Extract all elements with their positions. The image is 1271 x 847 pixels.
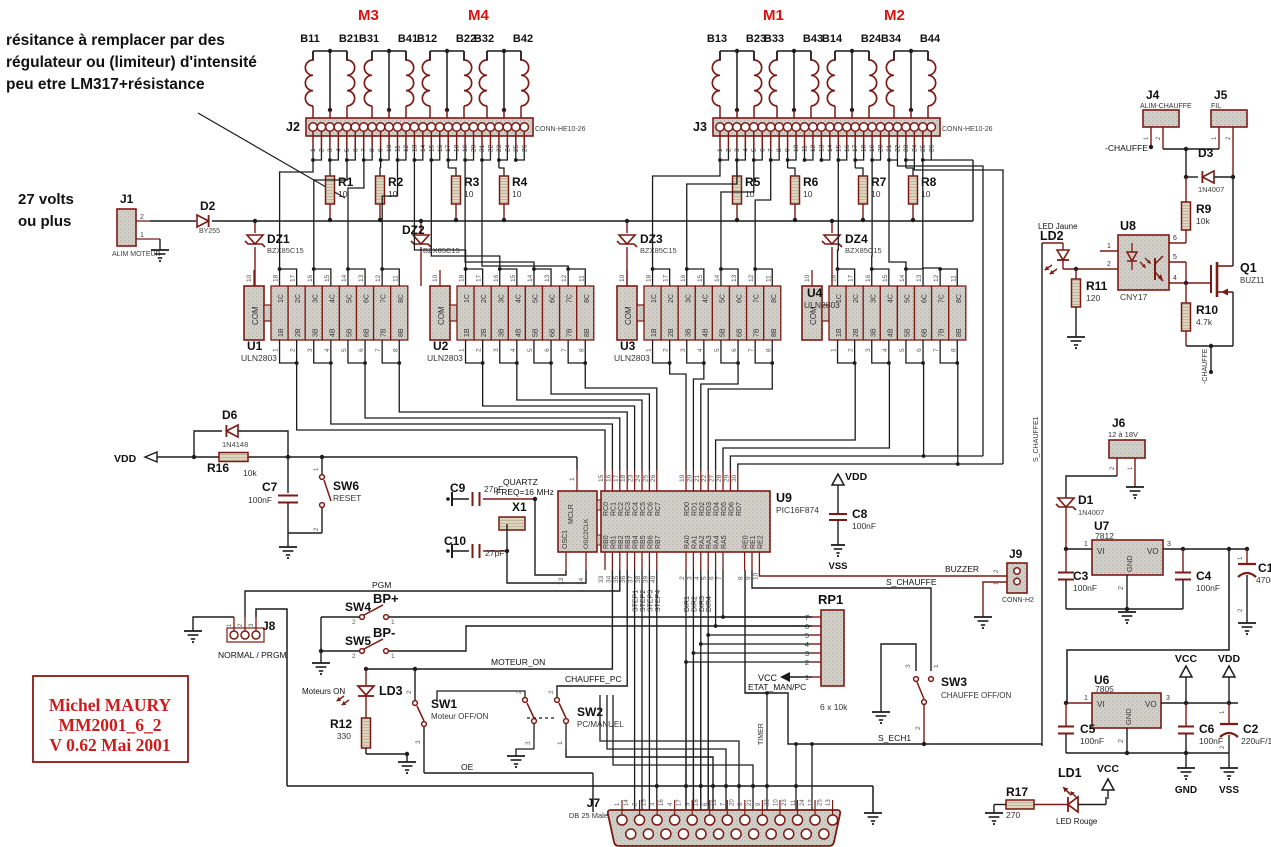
- svg-text:100nF: 100nF: [1199, 736, 1223, 746]
- svg-text:2: 2: [516, 690, 523, 694]
- svg-text:6C: 6C: [364, 294, 371, 303]
- capacitor C3 100nF: [1065, 549, 1067, 572]
- svg-text:GND: GND: [1124, 708, 1133, 725]
- svg-text:PIC16F874: PIC16F874: [776, 505, 819, 515]
- svg-text:D6: D6: [222, 408, 238, 422]
- svg-text:J3: J3: [693, 120, 707, 134]
- svg-text:3: 3: [493, 348, 500, 352]
- svg-text:4C: 4C: [702, 294, 709, 303]
- svg-text:19: 19: [712, 799, 718, 806]
- svg-text:7: 7: [561, 348, 568, 352]
- svg-text:DZ3: DZ3: [640, 232, 663, 246]
- svg-text:27 volts: 27 volts: [18, 191, 74, 208]
- wire MOTEUR_ON net: [366, 570, 612, 669]
- svg-text:2C: 2C: [295, 294, 302, 303]
- svg-text:1: 1: [557, 741, 564, 745]
- svg-text:RD6: RD6: [728, 502, 735, 516]
- svg-text:5C: 5C: [347, 294, 354, 303]
- svg-text:7C: 7C: [567, 294, 574, 303]
- svg-text:U1: U1: [247, 339, 263, 353]
- wire centre tap B12/B22: [446, 51, 448, 110]
- svg-text:C6: C6: [1199, 722, 1215, 736]
- svg-text:28: 28: [716, 474, 723, 482]
- svg-text:3B: 3B: [685, 328, 692, 337]
- svg-text:10: 10: [803, 189, 813, 199]
- svg-text:4: 4: [510, 348, 517, 352]
- wire top of windings B12/B22: [430, 50, 464, 52]
- pin 1 MCLR of U9: [576, 470, 578, 491]
- svg-text:B32: B32: [474, 33, 494, 45]
- svg-text:VO: VO: [1145, 700, 1157, 709]
- svg-text:B14: B14: [822, 33, 843, 45]
- svg-text:B21: B21: [339, 33, 359, 45]
- ground near SW3: [872, 711, 890, 713]
- svg-text:3C: 3C: [312, 294, 319, 303]
- wire centre tap B31/B41: [388, 51, 390, 110]
- svg-text:R10: R10: [1196, 303, 1218, 317]
- svg-text:U2: U2: [433, 339, 449, 353]
- svg-text:3: 3: [415, 740, 422, 744]
- svg-text:Q1: Q1: [1240, 261, 1257, 275]
- svg-text:10k: 10k: [243, 468, 257, 478]
- svg-text:FREQ=16 MHz: FREQ=16 MHz: [496, 487, 554, 497]
- svg-text:5: 5: [1173, 254, 1177, 261]
- svg-text:8B: 8B: [398, 328, 405, 337]
- svg-text:2B: 2B: [668, 328, 675, 337]
- svg-text:11: 11: [578, 275, 585, 282]
- svg-text:RE1: RE1: [750, 535, 757, 549]
- wire DIR nets to J7: [685, 662, 687, 806]
- svg-text:2: 2: [548, 690, 555, 694]
- pins RB0-RB7 of U9: [604, 552, 606, 570]
- svg-text:17: 17: [677, 799, 683, 806]
- svg-text:15: 15: [697, 274, 704, 282]
- svg-text:STEP1: STEP1: [633, 590, 640, 612]
- ground under U7: [1118, 611, 1136, 613]
- ground under J9: [974, 616, 992, 618]
- svg-text:7: 7: [748, 348, 755, 352]
- svg-text:RB1: RB1: [610, 535, 617, 549]
- pins OSC1 OSC2 of U9: [565, 552, 567, 570]
- svg-text:STEP2: STEP2: [640, 590, 647, 612]
- svg-text:9: 9: [745, 576, 752, 580]
- svg-text:16: 16: [307, 274, 314, 282]
- svg-text:R12: R12: [330, 717, 352, 731]
- wire LD2 to S_CHAUFFE1 column: [1041, 243, 1043, 746]
- svg-text:36: 36: [620, 575, 627, 583]
- svg-text:S_CHAUFFE1: S_CHAUFFE1: [1033, 416, 1040, 462]
- svg-text:Moteur OFF/ON: Moteur OFF/ON: [431, 712, 489, 721]
- svg-text:330: 330: [337, 731, 351, 741]
- svg-text:S_CHAUFFE: S_CHAUFFE: [886, 577, 937, 587]
- svg-text:6: 6: [1173, 235, 1177, 242]
- svg-text:7C: 7C: [754, 294, 761, 303]
- svg-text:18: 18: [694, 799, 700, 806]
- wire SW2 pole to J7: [566, 749, 713, 812]
- svg-text:15: 15: [882, 274, 889, 282]
- power arrow VDD at C8: [832, 474, 844, 485]
- svg-text:11: 11: [791, 799, 797, 806]
- svg-text:R5: R5: [745, 175, 761, 189]
- svg-text:27pF: 27pF: [485, 548, 504, 558]
- ground under C6 GND: [1185, 753, 1187, 768]
- svg-text:20: 20: [729, 799, 735, 806]
- svg-text:16: 16: [605, 474, 612, 482]
- svg-text:LD3: LD3: [379, 684, 403, 698]
- svg-text:13: 13: [826, 799, 832, 806]
- svg-text:B44: B44: [920, 33, 941, 45]
- ic U2 ULN2803: [430, 286, 450, 340]
- svg-text:BUZZER: BUZZER: [945, 564, 979, 574]
- svg-text:13: 13: [358, 274, 365, 282]
- svg-text:35: 35: [613, 575, 620, 583]
- svg-text:4: 4: [1173, 275, 1177, 282]
- svg-text:RC6: RC6: [647, 502, 654, 516]
- svg-text:6C: 6C: [922, 294, 929, 303]
- wire J3 to rail riser: [931, 159, 973, 161]
- wire BUZZER net: [759, 570, 1007, 576]
- svg-text:25: 25: [642, 474, 649, 482]
- resistor R16: [219, 453, 248, 462]
- svg-text:VSS: VSS: [828, 561, 847, 572]
- svg-text:U9: U9: [776, 491, 792, 505]
- svg-text:33: 33: [598, 575, 605, 583]
- svg-text:R7: R7: [871, 175, 887, 189]
- svg-text:M1: M1: [763, 7, 784, 24]
- net -CHAUFFE stub: [1210, 346, 1212, 372]
- svg-text:OE: OE: [461, 762, 474, 772]
- wire RA nets to RP1 and J7: [685, 570, 687, 662]
- pins RD0-RD7 of U9: [685, 470, 687, 491]
- svg-text:CHAUFFE OFF/ON: CHAUFFE OFF/ON: [941, 691, 1011, 700]
- svg-text:DZ2: DZ2: [402, 223, 425, 237]
- svg-text:8: 8: [392, 348, 399, 352]
- svg-text:10: 10: [388, 189, 398, 199]
- power arrow VDD: [1223, 666, 1235, 677]
- svg-text:C2: C2: [1243, 722, 1259, 736]
- resistor R8: [905, 160, 907, 168]
- wire PGM net: [245, 570, 620, 617]
- svg-text:CNY17: CNY17: [1120, 292, 1148, 302]
- svg-text:4C: 4C: [515, 294, 522, 303]
- svg-text:B11: B11: [300, 33, 320, 45]
- svg-text:15: 15: [510, 274, 517, 282]
- wire gang link SW2: [527, 717, 555, 719]
- ic U9 PIC16F874: [558, 491, 597, 552]
- ground under C7: [279, 546, 297, 548]
- resistor R3: [447, 160, 449, 168]
- svg-text:BZX85C15: BZX85C15: [845, 246, 882, 255]
- svg-text:21: 21: [747, 799, 753, 806]
- svg-text:2: 2: [1118, 586, 1125, 590]
- capacitor C2 220uF: [1228, 703, 1230, 725]
- svg-text:2: 2: [663, 348, 670, 352]
- svg-text:470uF: 470uF: [1256, 575, 1271, 585]
- switch SW6 RESET: [321, 457, 323, 474]
- svg-text:S_ECH1: S_ECH1: [878, 733, 911, 743]
- svg-text:100nF: 100nF: [1196, 583, 1220, 593]
- svg-text:B34: B34: [881, 33, 902, 45]
- svg-text:6C: 6C: [550, 294, 557, 303]
- svg-text:5: 5: [714, 348, 721, 352]
- resistor R7: [854, 160, 856, 168]
- svg-text:270: 270: [1006, 810, 1020, 820]
- ground for J1: [159, 239, 161, 250]
- svg-text:B31: B31: [359, 33, 379, 45]
- svg-text:5B: 5B: [720, 328, 727, 337]
- svg-text:13: 13: [916, 274, 923, 282]
- pin wires of U7: [1066, 548, 1092, 550]
- svg-text:16: 16: [865, 274, 872, 282]
- svg-text:B42: B42: [513, 33, 533, 45]
- svg-text:BZX85C15: BZX85C15: [267, 246, 304, 255]
- svg-text:4B: 4B: [329, 328, 336, 337]
- svg-text:J1: J1: [120, 192, 134, 206]
- svg-text:R3: R3: [464, 175, 480, 189]
- svg-text:ULN2803: ULN2803: [804, 300, 840, 310]
- svg-text:17: 17: [848, 274, 855, 282]
- svg-text:16: 16: [493, 274, 500, 282]
- svg-text:10: 10: [512, 189, 522, 199]
- zener DZ4: [831, 221, 833, 233]
- svg-text:SW3: SW3: [941, 675, 967, 689]
- svg-text:D3: D3: [1198, 146, 1214, 160]
- svg-text:2C: 2C: [668, 294, 675, 303]
- svg-text:7B: 7B: [381, 328, 388, 337]
- wire top of windings B31/B41: [372, 50, 406, 52]
- svg-text:2B: 2B: [853, 328, 860, 337]
- svg-text:10: 10: [752, 572, 759, 580]
- svg-text:15: 15: [641, 799, 647, 806]
- svg-text:B41: B41: [398, 33, 418, 45]
- svg-text:U4: U4: [807, 286, 823, 300]
- svg-text:3C: 3C: [685, 294, 692, 303]
- svg-text:4: 4: [882, 348, 889, 352]
- svg-text:U8: U8: [1120, 219, 1136, 233]
- svg-text:FIL: FIL: [1211, 103, 1221, 110]
- svg-text:RA2: RA2: [699, 535, 706, 549]
- wire OE net: [424, 772, 593, 774]
- svg-text:10: 10: [619, 274, 626, 282]
- svg-text:1: 1: [459, 348, 466, 352]
- svg-text:12: 12: [561, 274, 568, 282]
- svg-text:3: 3: [1166, 695, 1170, 702]
- wire U6 ground rail: [1066, 752, 1229, 754]
- svg-text:10: 10: [432, 274, 439, 282]
- svg-text:6B: 6B: [364, 328, 371, 337]
- diode D2 BY255: [150, 220, 196, 222]
- svg-text:5B: 5B: [905, 328, 912, 337]
- wire bus U2 outputs to U9 RC4-RC7: [483, 363, 635, 470]
- svg-text:17: 17: [613, 474, 620, 482]
- svg-text:U3: U3: [620, 339, 636, 353]
- svg-text:DIR2: DIR2: [691, 596, 698, 612]
- svg-text:4B: 4B: [515, 328, 522, 337]
- svg-text:R9: R9: [1196, 202, 1212, 216]
- svg-text:14: 14: [714, 274, 721, 282]
- svg-text:RESET: RESET: [333, 493, 361, 503]
- svg-text:1C: 1C: [464, 294, 471, 303]
- svg-text:8B: 8B: [584, 328, 591, 337]
- svg-text:2: 2: [476, 348, 483, 352]
- ground under SW2: [507, 755, 525, 757]
- svg-text:J5: J5: [1214, 88, 1228, 102]
- svg-text:RC1: RC1: [610, 502, 617, 516]
- svg-text:100nF: 100nF: [1080, 736, 1104, 746]
- svg-text:24: 24: [800, 799, 806, 806]
- svg-text:2: 2: [290, 348, 297, 352]
- svg-text:1: 1: [646, 348, 653, 352]
- svg-text:1: 1: [831, 348, 838, 352]
- svg-text:RB7: RB7: [655, 535, 662, 549]
- svg-text:14: 14: [341, 274, 348, 282]
- wire J8.3 to bottom rail: [256, 609, 287, 786]
- ground under R17: [985, 812, 1003, 814]
- svg-text:3: 3: [307, 348, 314, 352]
- svg-text:4B: 4B: [887, 328, 894, 337]
- svg-text:RD3: RD3: [706, 502, 713, 516]
- wire top of windings B13/B23: [720, 50, 754, 52]
- svg-text:R2: R2: [388, 175, 404, 189]
- svg-text:RD5: RD5: [721, 502, 728, 516]
- svg-text:DIR4: DIR4: [706, 596, 713, 612]
- svg-text:2: 2: [1118, 739, 1125, 743]
- svg-text:1: 1: [933, 664, 940, 668]
- resistor R1: [329, 160, 331, 168]
- svg-text:30: 30: [731, 474, 738, 482]
- svg-text:RD1: RD1: [691, 502, 698, 516]
- svg-text:ou plus: ou plus: [18, 213, 71, 230]
- wire S_CHAUFFE net: [752, 570, 931, 671]
- svg-text:BP+: BP+: [373, 591, 399, 606]
- svg-text:11: 11: [392, 275, 399, 282]
- svg-text:3B: 3B: [312, 328, 319, 337]
- wire rail to J3 right: [972, 160, 974, 221]
- wire MCLR net: [192, 455, 196, 459]
- svg-text:DIR1: DIR1: [684, 596, 691, 612]
- svg-text:VDD: VDD: [845, 471, 868, 483]
- pins RE0-RE2 of U9: [744, 552, 746, 570]
- wire top of windings B32/B42: [487, 50, 521, 52]
- svg-text:12: 12: [748, 274, 755, 282]
- wire STEP nets to J7: [634, 570, 636, 812]
- svg-text:RA5: RA5: [721, 535, 728, 549]
- svg-text:RB6: RB6: [647, 535, 654, 549]
- svg-text:SW5: SW5: [345, 634, 371, 648]
- svg-text:C4: C4: [1196, 569, 1212, 583]
- svg-text:12: 12: [933, 274, 940, 282]
- svg-text:J2: J2: [286, 120, 300, 134]
- svg-text:7: 7: [933, 348, 940, 352]
- svg-text:13: 13: [731, 274, 738, 282]
- connector J3 CONN-HE10-26: [713, 118, 940, 136]
- svg-text:21: 21: [694, 474, 701, 482]
- wire J2 links to U1/U2 inputs: [280, 160, 313, 269]
- zener DZ1: [254, 221, 256, 233]
- svg-text:37: 37: [628, 575, 635, 583]
- svg-text:4: 4: [324, 348, 331, 352]
- svg-text:10k: 10k: [1196, 216, 1210, 226]
- svg-text:C1: C1: [1258, 561, 1271, 575]
- svg-text:17: 17: [476, 274, 483, 282]
- svg-text:C9: C9: [450, 481, 466, 495]
- wire J4.2 to J5.1: [1163, 148, 1219, 150]
- svg-text:C3: C3: [1073, 569, 1089, 583]
- connector J1 ALIM MOTEUR: [117, 209, 136, 246]
- svg-text:MCLR: MCLR: [568, 504, 575, 524]
- svg-text:3: 3: [1167, 541, 1171, 548]
- wire long feeders right of J3: [897, 160, 983, 456]
- svg-text:10: 10: [804, 274, 811, 282]
- svg-text:2B: 2B: [481, 328, 488, 337]
- svg-text:20: 20: [686, 474, 693, 482]
- svg-text:NORMAL / PRGM: NORMAL / PRGM: [218, 650, 287, 660]
- svg-text:3C: 3C: [498, 294, 505, 303]
- svg-text:14: 14: [624, 799, 630, 806]
- svg-text:RA4: RA4: [714, 535, 721, 549]
- svg-text:RB0: RB0: [603, 535, 610, 549]
- svg-text:100nF: 100nF: [1073, 583, 1097, 593]
- svg-text:B33: B33: [764, 33, 784, 45]
- svg-text:MOTEUR_ON: MOTEUR_ON: [491, 657, 545, 667]
- svg-text:RD4: RD4: [714, 502, 721, 516]
- wire J8.1 to ground: [193, 617, 234, 631]
- svg-text:5C: 5C: [905, 294, 912, 303]
- svg-text:1C: 1C: [278, 294, 285, 303]
- svg-text:10: 10: [773, 799, 779, 806]
- svg-text:SW6: SW6: [333, 479, 359, 493]
- svg-text:6C: 6C: [737, 294, 744, 303]
- wire BP+ to RP1.7: [389, 616, 812, 618]
- svg-text:11: 11: [950, 275, 957, 282]
- ic U4 ULN2803: [802, 286, 822, 340]
- svg-text:GND: GND: [1175, 785, 1197, 796]
- svg-text:2C: 2C: [481, 294, 488, 303]
- svg-text:R4: R4: [512, 175, 528, 189]
- wire bottom ground rail: [287, 785, 873, 787]
- capacitor C8: [829, 513, 847, 515]
- svg-text:3C: 3C: [870, 294, 877, 303]
- svg-text:7B: 7B: [754, 328, 761, 337]
- zener DZ2: [420, 221, 422, 233]
- svg-text:1: 1: [569, 477, 576, 481]
- power arrow VCC at LD1: [1105, 797, 1107, 805]
- svg-text:RC7: RC7: [655, 502, 662, 516]
- svg-text:15: 15: [598, 474, 605, 482]
- svg-text:SW4: SW4: [345, 600, 371, 614]
- capacitor C5 100nF: [1065, 703, 1067, 726]
- svg-text:17: 17: [663, 274, 670, 282]
- title box Michel MAURY: [33, 676, 188, 762]
- svg-text:DB 25 Male: DB 25 Male: [569, 811, 608, 820]
- wire stubs to J7 right: [795, 744, 797, 812]
- svg-text:LD2: LD2: [1040, 229, 1064, 243]
- svg-text:4: 4: [697, 348, 704, 352]
- svg-text:GND: GND: [1125, 555, 1134, 572]
- svg-text:DZ4: DZ4: [845, 232, 868, 246]
- svg-text:220uF/16: 220uF/16: [1241, 736, 1271, 746]
- svg-text:RC4: RC4: [633, 502, 640, 516]
- svg-text:1: 1: [1107, 243, 1111, 250]
- svg-text:DIR3: DIR3: [699, 596, 706, 612]
- svg-text:B24: B24: [861, 33, 882, 45]
- svg-text:7B: 7B: [939, 328, 946, 337]
- svg-text:14: 14: [578, 577, 585, 585]
- svg-text:D1: D1: [1078, 493, 1094, 507]
- wire J3 links to U3/U4 inputs: [653, 160, 720, 269]
- svg-text:RA3: RA3: [706, 535, 713, 549]
- svg-text:M2: M2: [884, 7, 905, 24]
